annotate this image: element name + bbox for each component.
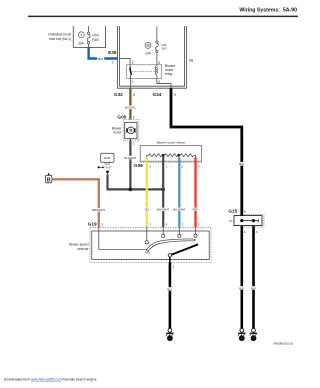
wire BLK/WHT resistor to selector (162, 156, 164, 227)
wire label BLK (249, 286, 258, 290)
G06 boundary dashes (141, 162, 203, 164)
blower motor M symbol (127, 127, 134, 134)
junction bus in G15 (242, 220, 258, 222)
svg-text:10A: 10A (145, 52, 152, 56)
wire IG2 SIG feed (156, 27, 158, 41)
svg-text:J/B: J/B (189, 59, 194, 63)
junction dot resistor (161, 188, 165, 192)
junction dot motor (129, 188, 133, 192)
svg-text:BLK/YEL: BLK/YEL (125, 106, 136, 110)
wire label BLK (237, 286, 246, 290)
switch blade (170, 244, 198, 255)
rotary track (146, 239, 195, 251)
svg-text:9: 9 (174, 93, 176, 97)
wire fuse38 to relay pin5 (156, 53, 158, 65)
selector pin5 lead (99, 227, 148, 249)
svg-text:FAN: FAN (92, 38, 99, 42)
svg-text:G06: G06 (134, 163, 143, 168)
wire relay pin1 to G32 (129, 78, 131, 88)
svg-text:RED: RED (193, 208, 199, 212)
svg-text:2: 2 (132, 61, 134, 65)
svg-text:38: 38 (146, 44, 150, 48)
relay actuation dashed link (132, 70, 155, 72)
svg-text:BLK: BLK (251, 286, 256, 290)
svg-text:Wiring Systems: 5A-90: Wiring Systems: 5A-90 (239, 8, 297, 14)
ECM terminal A-5 pointer (98, 166, 100, 168)
svg-text:YEL: YEL (144, 208, 150, 212)
resistor node to pin 2 (178, 154, 181, 157)
svg-text:BLK/WHT: BLK/WHT (157, 208, 169, 212)
selector pin1 lead (169, 257, 171, 263)
svg-text:G15: G15 (228, 208, 237, 213)
wire junction bus (107, 188, 164, 190)
selector pin6 lead (162, 227, 164, 234)
svg-text:A: A (244, 209, 246, 213)
wire label BLK (237, 162, 246, 166)
blower motor resistor box (140, 146, 201, 162)
svg-text:A: A (256, 230, 258, 234)
svg-text:SIG: SIG (162, 47, 168, 51)
wire YEL (146, 157, 148, 227)
svg-text:G32: G32 (114, 92, 123, 97)
blower motor connector boundary (123, 120, 139, 141)
wire ECM drop to junction (106, 174, 108, 189)
svg-text:1: 1 (131, 80, 133, 84)
fuse F4 symbol (88, 26, 90, 32)
blower motor brushes (126, 128, 128, 133)
svg-text:relay: relay (165, 72, 173, 76)
resistor node to pin 1 (162, 154, 165, 157)
svg-text:FAN: FAN (145, 251, 150, 254)
wire label YEL (143, 208, 151, 211)
wire label BLU/WHT (172, 208, 187, 211)
wire E39 to relay pin2 (120, 59, 131, 65)
svg-text:ECM: ECM (104, 156, 111, 160)
wire label BLK (165, 287, 174, 291)
svg-text:selector: selector (77, 247, 89, 251)
svg-text:fuse box (No.1): fuse box (No.1) (49, 37, 71, 41)
svg-text:Downloaded from www.Manualslib: Downloaded from www.Manualslib.com manua… (4, 378, 97, 382)
svg-text:motor: motor (113, 131, 122, 135)
wire BLU/WHT (178, 157, 180, 227)
G15 junction box (234, 216, 262, 226)
svg-text:BLU/WHT: BLU/WHT (173, 208, 185, 212)
svg-text:G34: G34 (153, 92, 162, 97)
wire BLK thick G34 to G15 (171, 88, 242, 215)
wire label BLU (97, 57, 104, 60)
svg-text:G05: G05 (117, 115, 126, 120)
J/B outer border (118, 26, 187, 88)
svg-text:BLK/WHT: BLK/WHT (124, 156, 136, 160)
blower speed selector box (92, 231, 209, 260)
blade pivot (168, 254, 171, 257)
blower motor relay box (127, 65, 162, 79)
svg-text:BRN/WHT: BRN/WHT (93, 208, 106, 212)
selector pin7 lead (146, 227, 148, 240)
ECM box (101, 153, 115, 162)
wire BRN/WHT (52, 179, 99, 227)
svg-text:4: 4 (80, 33, 82, 37)
wire label BLK/YEL (123, 106, 137, 109)
svg-text:1: 1 (133, 142, 135, 146)
ground 9 (238, 328, 245, 341)
wire RED (194, 157, 196, 227)
svg-text:2: 2 (133, 115, 135, 119)
ground 14 (166, 328, 173, 341)
svg-text:7: 7 (112, 61, 114, 65)
blower motor box (125, 122, 137, 138)
fuse number circle 4 (78, 32, 84, 38)
ECM stand (105, 162, 111, 164)
ground 10 (250, 328, 257, 341)
svg-text:J/C: J/C (229, 220, 233, 223)
wire BLK/YEL G32 to blower motor (129, 88, 131, 119)
svg-text:14: 14 (168, 337, 172, 341)
G15 hatch right (263, 214, 265, 227)
motor pin stub (129, 139, 131, 141)
svg-text:E39: E39 (108, 50, 117, 55)
svg-text:M: M (129, 129, 132, 133)
fuse number circle 38 (145, 42, 151, 48)
wire BLK selector to ground (169, 263, 172, 329)
svg-text:30A: 30A (78, 41, 85, 45)
wire BLK G15 left to ground (241, 216, 244, 329)
wire label BLK/WHT (156, 208, 171, 211)
svg-text:A: A (244, 230, 246, 234)
header rule (28, 15, 298, 17)
svg-text:G19: G19 (88, 222, 97, 227)
svg-text:5: 5 (158, 61, 160, 65)
joint triangle (106, 171, 110, 175)
wire BLK G15 right to ground (252, 222, 255, 328)
wire BLK/WHT motor to junction (129, 141, 131, 189)
G19 connector boundary (90, 227, 211, 262)
svg-text:10: 10 (252, 337, 256, 341)
svg-text:B: B (47, 178, 51, 184)
fuse F38 symbol (156, 41, 158, 43)
svg-text:6: 6 (133, 93, 135, 97)
svg-text:BLK: BLK (239, 162, 244, 166)
svg-text:BLK: BLK (239, 286, 244, 290)
relay switch blade (129, 65, 131, 68)
svg-text:Individual circuit: Individual circuit (48, 33, 71, 37)
selector pin3 lead (178, 227, 180, 234)
resistor chain (147, 154, 196, 162)
wire label BLK/WHT (123, 156, 138, 159)
svg-text:I7RS0B510021-01: I7RS0B510021-01 (273, 342, 294, 345)
svg-text:Blower motor resistor: Blower motor resistor (157, 141, 185, 145)
svg-text:"A-5": "A-5" (105, 166, 111, 170)
J/B inner border (120, 26, 185, 86)
wire label RED (191, 208, 199, 211)
svg-text:BLU: BLU (98, 57, 103, 61)
wire BLU from fuse to E39 (89, 47, 118, 58)
wire relay pin3 to G34 (157, 78, 171, 88)
wire label BRN/WHT (91, 208, 106, 211)
individual circuit fuse box (No.1) outline (73, 26, 105, 47)
connector B page link (48, 173, 50, 175)
selector pin2 lead (195, 227, 197, 234)
relay coil (156, 65, 157, 68)
G15 hatch bottom (244, 226, 264, 228)
G15 hatch top (244, 213, 264, 215)
svg-text:BLK: BLK (167, 287, 172, 291)
